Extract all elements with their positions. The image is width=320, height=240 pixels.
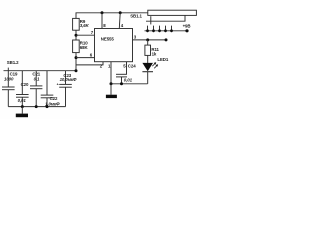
svg-text:0,1: 0,1 <box>34 76 40 81</box>
wire pin2 <box>76 62 103 65</box>
svg-text:1,0мкФ: 1,0мкФ <box>45 101 60 106</box>
svg-text:1000: 1000 <box>4 76 14 81</box>
svg-text:4: 4 <box>121 23 124 28</box>
wire top rail <box>76 13 148 19</box>
capacitor C19 <box>7 68 9 87</box>
node pin3-R11 junction <box>146 38 149 41</box>
capacitor C23 <box>65 71 67 85</box>
wire right ground bus <box>111 83 148 85</box>
switch SB1.2 selector line <box>4 70 77 72</box>
wire pin3 output <box>133 39 167 41</box>
switch contact tick 3 <box>159 26 161 31</box>
node pin1-bus <box>110 82 113 85</box>
svg-text:LED1: LED1 <box>157 57 168 62</box>
capacitor C21 <box>35 71 37 86</box>
ground right <box>110 84 112 95</box>
node selector-pins2,6 <box>75 69 78 72</box>
svg-text:C24: C24 <box>128 63 136 68</box>
LED light arrows <box>152 63 155 66</box>
wire R10 bottom to selector <box>75 53 77 71</box>
svg-text:8: 8 <box>103 23 106 28</box>
svg-text:6: 6 <box>90 52 93 57</box>
switch contact tick 1 <box>147 26 149 31</box>
node rail-pin8 <box>101 11 104 14</box>
wire pin1 stub down <box>110 62 112 84</box>
LED LED1 <box>142 63 153 71</box>
wire pin6 <box>76 57 95 59</box>
node R9-R10 junction <box>75 34 78 37</box>
capacitor C24 <box>116 73 127 75</box>
svg-text:7: 7 <box>91 30 94 35</box>
switch contact tick 2 <box>153 26 155 31</box>
switch contact tick 4 <box>165 26 167 31</box>
wire pin4 stub <box>118 13 121 29</box>
wire SB1.1 wiper row <box>146 15 185 21</box>
resistor R10 <box>73 40 80 53</box>
svg-text:SB1.2: SB1.2 <box>7 60 19 65</box>
node R10-pin6 junction <box>75 56 78 59</box>
capacitor C20 <box>21 71 23 95</box>
capacitor C22 <box>46 71 48 95</box>
svg-text:1k: 1k <box>152 52 157 57</box>
node C21-bus <box>35 105 38 108</box>
wire pin5 stub down <box>126 62 128 75</box>
svg-text:68K: 68K <box>80 45 89 50</box>
switch contact tick 5 <box>171 26 173 31</box>
switch SB1.1 wiper tick <box>150 16 152 24</box>
node rail-pin4 <box>119 11 122 14</box>
svg-text:10,0мкФ: 10,0мкФ <box>60 77 77 82</box>
svg-text:SB1.1: SB1.1 <box>130 13 142 18</box>
wire left ground bus <box>8 106 65 108</box>
svg-text:0,01: 0,01 <box>124 77 133 82</box>
wire R9-R10 <box>75 30 77 40</box>
resistor R11 <box>147 40 149 45</box>
svg-text:3: 3 <box>134 35 137 40</box>
wire pin8 stub <box>101 13 103 29</box>
wire pin7 <box>76 34 95 36</box>
svg-text:NE555: NE555 <box>101 36 115 41</box>
node C24-bus <box>120 82 123 85</box>
svg-text:C20: C20 <box>21 82 29 87</box>
node pin3 end terminal <box>165 38 168 41</box>
ground left <box>21 107 23 114</box>
wire R11 to LED <box>147 55 149 63</box>
svg-text:+9В: +9В <box>183 24 191 29</box>
resistor R9 <box>73 18 80 30</box>
wire LED cathode to bus <box>147 72 149 84</box>
svg-text:5: 5 <box>123 63 126 68</box>
node +9V terminal <box>185 29 188 32</box>
switch SB1.1 box <box>148 10 197 15</box>
svg-text:+: + <box>57 82 59 86</box>
svg-text:2: 2 <box>100 63 103 68</box>
wire contact row +9V <box>145 30 188 32</box>
op-amp U1 NE555 box <box>95 29 133 62</box>
node C20-bus <box>21 105 24 108</box>
svg-text:3,6K: 3,6K <box>80 23 90 28</box>
svg-text:0,01: 0,01 <box>18 98 27 103</box>
node C22-bus <box>46 105 49 108</box>
